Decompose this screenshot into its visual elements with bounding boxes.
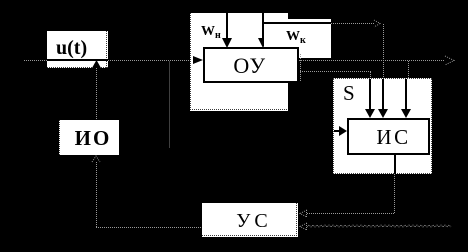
node frame: reference input u(t) white frame <box>47 31 108 68</box>
label IS <box>352 125 435 150</box>
label OU <box>201 53 299 79</box>
node label u(t) <box>56 37 96 60</box>
arrow into OU left (head) <box>193 56 203 64</box>
frame edge: region A left dotted <box>190 13 191 111</box>
wire: solid vertical from IS bottom inside S region <box>394 155 396 174</box>
wire: dotted vertical from wk junction down to S <box>383 24 384 79</box>
wire: dotted horizontal feedback to US <box>96 227 202 228</box>
arrow into OU top 1 (head) <box>222 38 232 48</box>
wk frame: white frame with Wk label <box>264 19 331 58</box>
frame edge: u(t) bottom dotted <box>47 67 108 68</box>
faint vertical gray line <box>169 61 170 148</box>
wire: zigzag dotted line into US right side at y=226 <box>307 223 455 229</box>
wire: OU output line 2 at y=71 <box>300 71 371 72</box>
label S <box>343 81 355 106</box>
arrow into IS top 2 <box>382 79 384 111</box>
block US: amplifier frame <box>202 203 298 237</box>
frame edge: u(t) right dotted <box>106 31 107 68</box>
dotted arrowhead up into IO bottom <box>91 155 101 163</box>
frame edge: IO left dotted <box>59 120 60 155</box>
wire: dotted vertical just right of OU <box>300 54 301 82</box>
arrow into IS top 3 <box>405 79 407 111</box>
wire: dotted from wk frame to junction at y=23 <box>331 23 374 24</box>
label Wn <box>201 24 221 41</box>
wire: dotted horizontal into US right side at y=213 <box>307 213 395 214</box>
wire: dotted vertical from IO up to u(t) <box>96 68 97 120</box>
region A: white background frame behind OU <box>190 13 288 111</box>
arrow into IS left (shaft) <box>334 130 340 132</box>
block IO: measuring element frame <box>59 120 119 155</box>
wire: solid line at top of wk frame <box>264 22 331 24</box>
block OU: controlled object box <box>203 47 299 83</box>
frame edge: US right dotted <box>296 203 297 237</box>
wire: dotted main line right of OU at y=60 <box>299 60 444 61</box>
arrow into OU top 2 (head) <box>258 38 268 48</box>
wire: dotted vertical IO to feedback corner <box>96 162 97 227</box>
dotted arrowhead right at wk line end <box>373 19 383 28</box>
dotted arrowhead right end of main line <box>444 55 456 66</box>
label Wk <box>286 29 306 46</box>
wire: dotted input line left of u(t) at y=60 <box>24 60 47 61</box>
arrow into OU top 2 (shaft) <box>262 13 264 40</box>
wire: short dotted vertical into S region from line 2 <box>370 72 371 79</box>
S region: white frame around IS <box>333 78 432 174</box>
arrow into IS top 1 <box>369 79 371 111</box>
frame edge: US bottom dotted <box>202 235 298 236</box>
wire: solid line segment through u(t) frame <box>47 59 108 61</box>
label IO <box>62 126 124 151</box>
wire: dotted vertical from S bottom down <box>394 174 395 213</box>
frame edge: region A bottom dotted <box>190 109 288 110</box>
wire: dotted vertical branch from main line down to S <box>408 61 409 79</box>
arrow into OU top 1 (shaft) <box>226 13 228 40</box>
dotted arrowhead left into US at y=226 <box>299 222 309 231</box>
dotted arrowhead left into US at y=213 <box>299 209 309 218</box>
block IS: measuring system box <box>347 118 430 155</box>
wire: dotted line u(t) to OU arrow at y=60 <box>108 60 194 61</box>
arrow up into u(t) (head) <box>92 60 101 68</box>
label US <box>204 210 304 233</box>
arrow into IS left (head) <box>339 126 347 136</box>
